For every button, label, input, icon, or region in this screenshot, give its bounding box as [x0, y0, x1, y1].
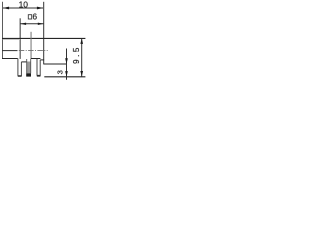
pin 2 body (filled)	[27, 62, 31, 74]
inner vertical edge x=31	[30, 32, 32, 59]
notch floor between pin1 and pin2	[21, 61, 26, 63]
dimension 0.6 left arrow	[20, 23, 26, 25]
pin 1 tip	[18, 75, 22, 77]
extension line left (x=2, also body left edge)	[1, 2, 3, 59]
seating plane line	[44, 63, 67, 65]
dimension 10 left arrow	[3, 7, 9, 10]
shaft highlight light line	[3, 39, 21, 41]
dimension 9.5 line	[81, 38, 83, 76]
dimension 0.6 right arrow	[38, 23, 44, 25]
body top edge extended right as 9.5 reference	[2, 37, 85, 39]
dimension square-6 label: square symbol	[28, 15, 31, 19]
dimension 3 upper arrow (down, tip at seating plane)	[65, 58, 68, 64]
svg-text:3: 3	[56, 70, 65, 74]
pin 3 tip	[37, 75, 41, 77]
dimension 9.5 bottom arrow (down, tip at pin tip line)	[80, 71, 83, 77]
dimension 10 line	[3, 7, 43, 9]
centerline dash-dot part	[19, 50, 48, 52]
pin 2 tip	[26, 73, 31, 76]
dimension 3 line	[66, 49, 68, 80]
pin 2 side edges	[27, 59, 31, 73]
dimension 9.5 top arrow (up, tip at body top line)	[80, 38, 83, 44]
body bottom edge left segment	[2, 58, 18, 60]
pin 1 outline	[18, 59, 22, 76]
dimension 10 right arrow	[37, 7, 43, 10]
dimension 0.6 line	[20, 23, 44, 25]
extension line right (x=43.7, also body right edge, down to seating)	[43, 2, 45, 65]
svg-text:6: 6	[33, 12, 38, 21]
svg-text:9.5: 9.5	[72, 47, 81, 64]
body bottom edge right segment	[31, 58, 41, 60]
extension line x=20 (0.6 dim / inner body edge)	[19, 18, 21, 59]
dimension 3 lower arrow (down, tip at pin tip line)	[65, 71, 68, 77]
pin tip reference line	[44, 76, 85, 78]
body bottom step right of pin3	[40, 59, 44, 61]
centerline solid part	[2, 50, 18, 52]
pin 3 outline	[37, 59, 40, 76]
